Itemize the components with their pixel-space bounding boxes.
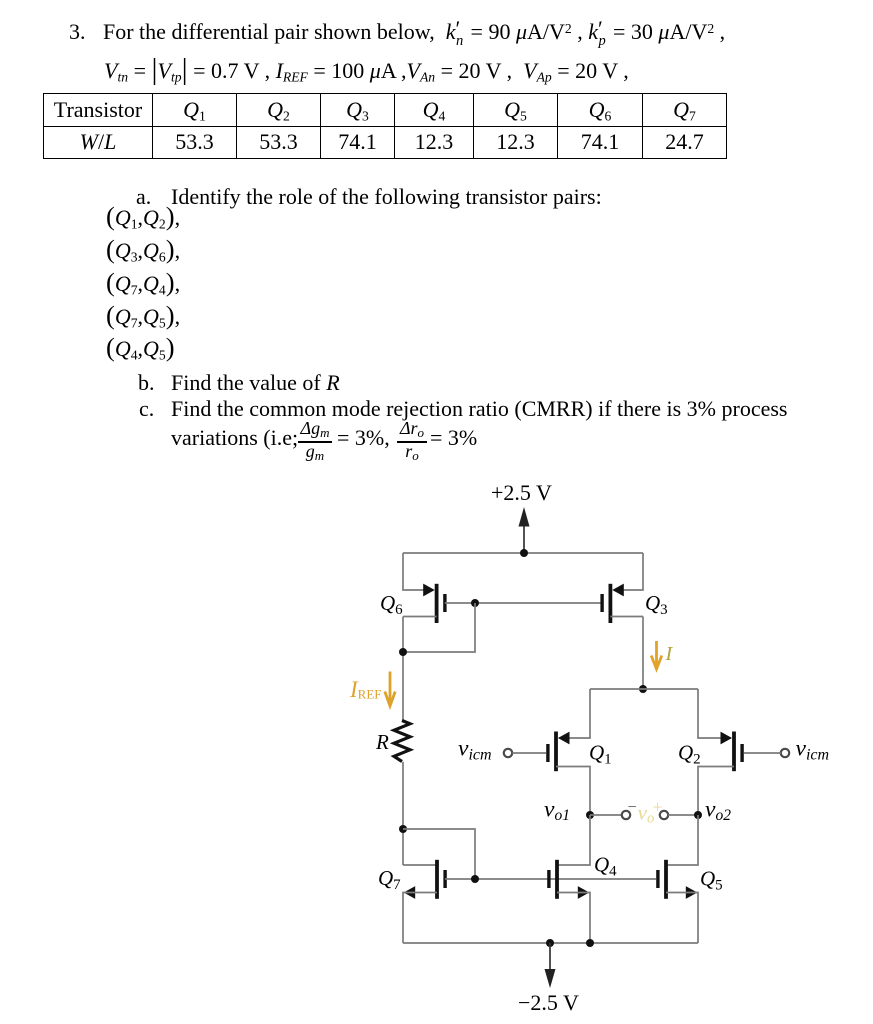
svg-text:−: − (628, 799, 637, 816)
svg-text:Q1: Q1 (589, 741, 612, 768)
svg-text:vicm: vicm (796, 736, 830, 764)
wire gate bus Q6-Q3 (445, 602, 602, 604)
svg-text:Q3: Q3 (645, 591, 668, 618)
svg-text:+2.5 V: +2.5 V (491, 480, 552, 505)
transistor Q1 (548, 732, 570, 772)
transistor Q6 (423, 584, 445, 623)
wire vo1 to Q4 drain (557, 815, 590, 865)
node vo1 (586, 811, 594, 819)
node gate bus bottom (471, 875, 479, 883)
node bottom rail left (546, 939, 554, 947)
svg-text:vicm: vicm (458, 736, 492, 764)
transistor Q5 (658, 860, 697, 899)
node bottom rail right (586, 939, 594, 947)
svg-text:Q2: Q2 (678, 741, 701, 768)
wire Q5 source lead (666, 893, 698, 944)
current IREF arrow (385, 672, 395, 707)
wire tail rail (590, 688, 698, 690)
wire R to lower node (402, 762, 404, 865)
node Q6 drain (399, 648, 407, 656)
wire Q4 source lead (557, 893, 590, 944)
svg-text:R: R (375, 730, 389, 754)
transistor Q4 (549, 860, 589, 899)
node vo2 (694, 811, 702, 819)
svg-text:IREF: IREF (349, 677, 382, 702)
wire Q3 drain drop (642, 617, 644, 690)
wire Q1 drain lead (556, 767, 590, 816)
transistor Q7 (404, 860, 445, 899)
wire Q7 diode loop (403, 829, 475, 879)
node gate bus (471, 599, 479, 607)
terminal vo minus (622, 811, 630, 819)
item c (139, 397, 154, 421)
svg-text:Q4: Q4 (594, 853, 617, 880)
wire top rail (403, 552, 643, 554)
svg-text:Q5: Q5 (700, 867, 723, 894)
wire tail to Q2 source (698, 689, 731, 738)
wire gate bus Q7-Q4-Q5 (445, 878, 656, 880)
svg-text:vo1: vo1 (544, 797, 570, 824)
wire Q2 drain lead (698, 767, 734, 816)
wire Q2 gate lead (744, 752, 781, 754)
wire Q6 diode loop (403, 603, 475, 652)
wire plus terminal to vo2 (668, 814, 698, 816)
wire vo2 to Q5 drain (666, 815, 698, 865)
terminal vo plus (660, 811, 668, 819)
item a (136, 185, 151, 209)
wire Q6 drain down (402, 617, 404, 722)
transistor W/L table (43, 93, 727, 159)
problem statement line 2 (104, 59, 629, 83)
wire rail to Q3 source (615, 553, 643, 590)
current I arrow (651, 641, 662, 669)
svg-text:vo2: vo2 (705, 797, 731, 824)
item b (138, 371, 155, 395)
terminal vicm right (781, 749, 789, 757)
wire Q3 drain lead (610, 616, 643, 618)
wire tail to Q1 source (559, 689, 590, 738)
wire vo1 to minus terminal (590, 814, 622, 816)
transistor Q2 (721, 732, 743, 772)
svg-text:I: I (665, 643, 674, 665)
wire bottom rail (403, 942, 698, 944)
power -2.5 V arrow (545, 943, 556, 988)
item c line 2 (171, 426, 298, 450)
svg-text:Q7: Q7 (378, 866, 401, 893)
resistor R (394, 721, 410, 762)
wire Q6 drain lead (403, 616, 437, 618)
node tail (639, 685, 647, 693)
wire Q1 gate lead (512, 752, 546, 754)
node R bottom (399, 825, 407, 833)
transistor Q3 (602, 584, 624, 623)
wire Q7 drain lead (403, 864, 437, 866)
wire rail to Q6 source (403, 553, 432, 590)
svg-text:−2.5 V: −2.5 V (518, 990, 579, 1015)
terminal vicm left (504, 749, 512, 757)
power +2.5 V arrow (519, 507, 530, 553)
problem statement line 1 (69, 20, 86, 44)
pair list (106, 206, 180, 230)
node top rail junction (520, 549, 528, 557)
svg-text:Q6: Q6 (380, 591, 403, 618)
wire Q7 source lead (403, 893, 437, 944)
